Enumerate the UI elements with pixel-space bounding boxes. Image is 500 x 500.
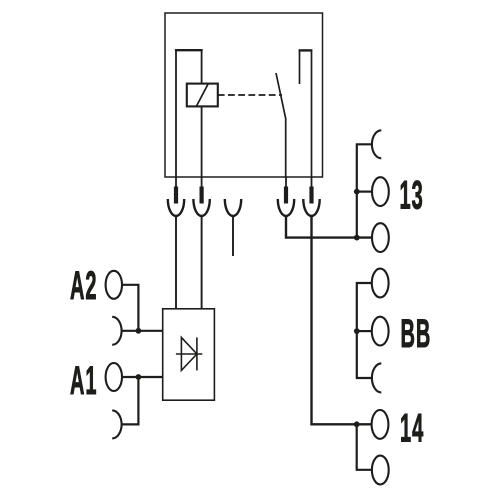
svg-text:A2: A2	[70, 262, 98, 308]
diode D1 line	[176, 353, 202, 355]
wire: pin 2 to diode box	[201, 216, 203, 309]
relay coil K1	[187, 84, 218, 107]
socket 1 tulip	[168, 199, 184, 216]
terminal socket above 13	[372, 130, 381, 158]
socket 3 tulip (unused)	[225, 199, 241, 216]
wire: BB bus	[357, 283, 372, 378]
terminal 13a circle	[372, 223, 389, 252]
terminal 14a circle	[372, 456, 389, 485]
pin 5 wire	[311, 177, 313, 199]
pin 1 wire	[175, 177, 177, 199]
terminal BB top circle	[372, 269, 389, 298]
pin 2 blade	[200, 187, 204, 204]
wire: A2 row into diode box	[122, 330, 163, 332]
pin 5 blade	[309, 187, 313, 204]
input circuit box	[163, 309, 215, 400]
node dot 13 branch	[354, 189, 360, 195]
terminal A1 circle	[106, 363, 122, 391]
node dot BB branch	[354, 328, 360, 334]
diode D1 cathode bar	[196, 337, 198, 370]
wire: socket 3 stub	[232, 216, 234, 256]
node dot 13 lower branch	[354, 235, 360, 241]
wire: A2 to node	[122, 285, 138, 331]
switch blade and wire to pin	[276, 73, 286, 177]
relay box	[165, 13, 323, 177]
dashed mechanical link	[218, 94, 282, 96]
wire: branch to BB circle	[357, 330, 372, 332]
wire: A1 node down to lower socket	[122, 377, 139, 424]
wire: coil feed loop	[176, 50, 202, 177]
wire: pin 1 to diode box	[175, 216, 177, 309]
pin 4 blade	[284, 187, 288, 204]
svg-text:14: 14	[400, 405, 424, 451]
pin 1 blade	[174, 187, 178, 204]
terminal A2 circle	[106, 271, 122, 299]
svg-text:BB: BB	[401, 310, 432, 356]
terminal socket below BB	[372, 363, 381, 392]
terminal 14 circle	[372, 410, 389, 439]
terminal socket below A1	[112, 410, 121, 438]
pin 2 wire	[201, 177, 203, 199]
wire: top socket to bus	[357, 144, 372, 237]
terminal BB circle	[372, 317, 389, 346]
socket 4 tulip	[278, 199, 294, 216]
coil slash	[197, 84, 208, 106]
svg-text:A1: A1	[70, 357, 98, 403]
svg-text:13: 13	[400, 172, 424, 218]
node dot 14 row	[354, 421, 360, 427]
socket 5 tulip	[303, 199, 319, 216]
terminal 13 circle	[372, 177, 389, 206]
wire: NO fixed contact	[300, 50, 312, 177]
pin 4 wire	[285, 177, 287, 199]
wire: coil feed loop horizontal	[175, 49, 203, 51]
wire: NO fixed contact horizontal	[299, 49, 313, 51]
socket 2 tulip	[193, 199, 209, 216]
wire: pin 5 to terminal 14 row	[312, 216, 372, 424]
wire: A1 into diode box	[122, 376, 163, 378]
wire: pin 4 to terminal 13 row	[286, 216, 372, 238]
wire: 14 bus down	[357, 424, 372, 470]
terminal socket below A2	[112, 317, 121, 345]
node dot A1 row	[136, 374, 142, 380]
wire: branch to 13 circle	[357, 191, 372, 193]
diode D1 triangle	[181, 337, 197, 370]
node dot A2 row	[136, 328, 142, 334]
